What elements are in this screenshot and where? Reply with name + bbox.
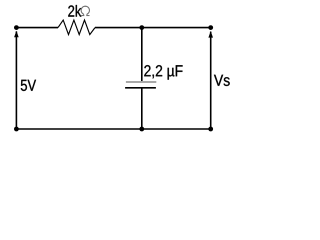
- wire: left branch vertical: [15, 31, 17, 129]
- node E (bottom middle junction dot): [139, 127, 144, 132]
- voltage arrow 5V (arrowhead up): [14, 31, 19, 38]
- node F (bottom right junction dot): [208, 127, 213, 132]
- capacitor C top plate (grey): [126, 81, 156, 83]
- node B (top middle junction dot): [139, 25, 144, 30]
- wire: capacitor bottom lead: [141, 88, 143, 129]
- voltage arrow Vs (arrowhead up): [208, 31, 213, 38]
- resistor R 2kOhm: [58, 20, 95, 34]
- value label 2k: [68, 5, 81, 17]
- wire: top rail right segment (resistor to node C): [95, 27, 211, 29]
- node D (bottom left junction dot): [14, 127, 19, 132]
- value label 2,2 uF: [144, 65, 182, 79]
- node A (top left junction dot): [14, 25, 19, 30]
- capacitor C bottom plate: [125, 87, 156, 89]
- wire: bottom rail: [16, 128, 210, 130]
- label 5V: [21, 80, 36, 91]
- wire: right branch vertical: [210, 32, 212, 129]
- wire: top rail left segment (node A to resistor): [16, 27, 58, 29]
- node C (top right junction dot): [208, 25, 213, 30]
- label Vs: [214, 75, 230, 86]
- wire: capacitor top lead: [141, 28, 143, 82]
- value label Omega: [81, 6, 89, 15]
